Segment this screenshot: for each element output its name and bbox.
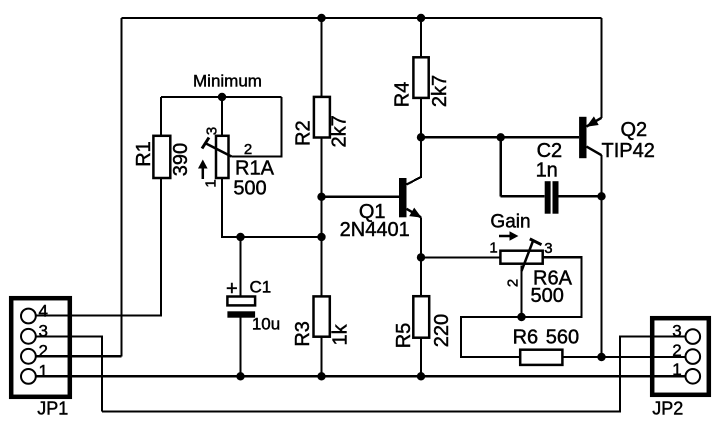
node R6A wiper / loop bottom (517, 313, 525, 321)
svg-text:2k7: 2k7 (429, 75, 451, 107)
svg-text:3: 3 (204, 127, 221, 135)
pin circle JP1-3 (21, 329, 36, 344)
resistor R6 (513, 327, 579, 365)
svg-text:2: 2 (38, 342, 47, 361)
potentiometer R6A wiper diagonal (522, 241, 534, 271)
node R6 right / Q2 collector / JP2 pin2 (597, 353, 605, 361)
resistor R5 body (413, 296, 429, 338)
svg-text:2N4401: 2N4401 (340, 219, 410, 241)
wire minimum loop top (161, 96, 282, 98)
connector JP2 (652, 318, 709, 418)
capacitor C2 (536, 140, 563, 214)
connector JP1 (11, 298, 70, 418)
svg-text:JP2: JP2 (652, 399, 683, 419)
svg-text:1: 1 (489, 240, 497, 257)
arrow head (510, 231, 519, 241)
resistor R2 (293, 97, 351, 148)
svg-text:R1A: R1A (235, 158, 275, 180)
svg-text:500: 500 (233, 178, 266, 200)
wire Q2 emitter top lead (600, 18, 602, 118)
resistor R1 (133, 136, 192, 178)
node R4 bottom / Q2 base (417, 133, 425, 141)
pin circle JP1-1 (21, 369, 36, 384)
potentiometer R1A wiper T-bar (202, 138, 209, 149)
wire Q1 collector lead (407, 137, 422, 184)
pin circle JP2-2 (686, 349, 701, 364)
wire bottom long run to JP2 pin3 (102, 337, 686, 412)
wire Q2 collector lead down (600, 155, 602, 357)
node C2 branch / Q2 base wire (497, 133, 505, 141)
wire ground rail JP1 pin1 to JP2 pin1 (36, 375, 686, 377)
wire C1 top lead (239, 237, 241, 297)
wire R6A pin3 loop to R6 left lead (461, 257, 582, 357)
wire R4 top lead (420, 18, 422, 57)
R1A adjustment direction arrow (198, 160, 208, 180)
potentiometer R6A (489, 239, 572, 307)
transistor Q1 emitter diagonal (407, 209, 422, 218)
node R3 bottom / ground rail (317, 372, 325, 380)
svg-text:R1: R1 (133, 141, 155, 167)
wire R4 bottom lead (420, 98, 422, 137)
transistor Q2 collector diagonal (587, 147, 602, 156)
wire R1 top lead (160, 97, 162, 136)
node top rail / R2 branch (317, 14, 325, 22)
wire R6 right lead to JP2 pin2 (562, 356, 685, 358)
transistor Q2 base bar (579, 117, 586, 158)
node R5 bottom / ground rail (417, 372, 425, 380)
wire Q1 emitter row to R6A pin1 (421, 256, 500, 258)
potentiometer R1A (202, 127, 275, 200)
capacitor C1 negative plate (227, 311, 255, 317)
potentiometer R6A wiper T-bar (530, 239, 542, 245)
resistor R5 (393, 296, 453, 348)
transistor Q1 (340, 178, 422, 241)
Gain adjustment direction arrow (499, 231, 518, 241)
wire R1 bottom lead to JP1 pin4 (36, 178, 161, 316)
capacitor C1 (226, 278, 280, 334)
arrow head (198, 160, 208, 169)
svg-text:R3: R3 (292, 321, 314, 347)
resistor R2 body (314, 97, 330, 138)
node R1A terminal 1 wire / R2R3 line (317, 233, 325, 241)
wire left vertical from top rail to JP1 pin2 row (120, 18, 122, 356)
wire R5 bottom lead (420, 338, 422, 377)
svg-text:10u: 10u (252, 315, 280, 334)
resistor R6 body (520, 350, 562, 365)
wire Q1 emitter down to R5 top (420, 217, 422, 296)
resistor R4 body (413, 57, 428, 98)
connector JP1 box (11, 298, 70, 397)
pin circle JP2-3 (686, 329, 701, 344)
resistor R3 (292, 296, 352, 346)
resistor R4 (392, 57, 452, 107)
node top rail / R4 branch (417, 14, 425, 22)
svg-text:4: 4 (38, 302, 47, 321)
wire JP1 pin2 lead (36, 355, 122, 357)
pin circle JP2-1 (686, 369, 701, 384)
resistor R1 body (153, 136, 170, 178)
wire Q2 base (421, 136, 579, 138)
node minimum loop / R1A terminal 3 (218, 93, 226, 101)
svg-text:2: 2 (244, 141, 252, 158)
arrow stem (202, 166, 205, 179)
potentiometer R1A body (216, 136, 229, 178)
svg-text:560: 560 (546, 327, 579, 349)
wire top supply rail (122, 17, 602, 19)
node C2 right / Q2 collector (597, 192, 605, 200)
wire R3 bottom lead (320, 337, 322, 377)
pin circle JP1-4 (21, 309, 36, 324)
svg-text:220: 220 (431, 314, 453, 347)
capacitor C1 positive plate (227, 297, 255, 306)
svg-text:R4: R4 (392, 82, 414, 108)
wire minimum loop right side to R1A wiper (232, 97, 282, 157)
transistor Q2 emitter arrow (586, 116, 598, 126)
svg-text:1n: 1n (536, 160, 558, 182)
node Q1 emitter / R6A pin1 row (417, 253, 425, 261)
transistor Q1 base bar (399, 178, 407, 217)
resistor R3 body (314, 296, 330, 336)
svg-text:Q2: Q2 (620, 119, 647, 141)
svg-text:JP1: JP1 (37, 399, 68, 419)
wire C2 branch vertical (500, 137, 502, 196)
svg-text:500: 500 (531, 285, 564, 307)
svg-text:390: 390 (170, 143, 192, 176)
svg-text:3: 3 (38, 322, 47, 341)
capacitor C2 left plate (545, 181, 551, 214)
wire C1 bottom lead (239, 318, 241, 377)
pin circle JP1-2 (21, 349, 36, 364)
node C1 top / R1A terminal 1 wire (236, 233, 244, 241)
wire C2 right lead (559, 195, 602, 197)
svg-text:C1: C1 (250, 278, 272, 297)
wire C2 left lead (501, 195, 545, 197)
transistor Q1 emitter arrow (409, 208, 421, 218)
svg-text:Gain: Gain (490, 212, 530, 233)
wire R2 top lead (320, 18, 322, 97)
svg-text:R6: R6 (513, 327, 539, 349)
wire R2 bottom to R3 top (320, 138, 322, 297)
svg-text:2: 2 (505, 279, 522, 287)
svg-text:1: 1 (38, 362, 47, 381)
wire R6A wiper terminal 2 lead (520, 266, 522, 318)
wire JP1 pin3 lead down to bottom wire (36, 336, 102, 411)
svg-text:+: + (226, 278, 238, 300)
svg-text:R2: R2 (293, 120, 315, 146)
wire Q1 base (322, 196, 400, 198)
svg-text:3: 3 (544, 240, 552, 257)
transistor Q2 emitter diagonal (587, 118, 602, 127)
svg-text:1k: 1k (330, 323, 352, 345)
svg-text:Minimum: Minimum (193, 72, 262, 91)
svg-text:3: 3 (672, 322, 681, 341)
capacitor C2 right plate (553, 181, 559, 214)
svg-text:2k7: 2k7 (329, 115, 351, 147)
transistor Q2 (579, 116, 655, 162)
svg-text:1: 1 (672, 360, 681, 379)
node Q1 base / R2 bottom (317, 193, 325, 201)
node C1 bottom / ground rail (236, 372, 244, 380)
svg-text:R5: R5 (393, 323, 415, 349)
wire R1A terminal3 lead (221, 97, 223, 136)
svg-text:1: 1 (203, 179, 220, 187)
svg-text:TIP42: TIP42 (602, 140, 655, 162)
wire R1A terminal1 lead to R2R3 line (222, 178, 322, 237)
potentiometer R6A body (500, 251, 542, 264)
connector JP2 box (652, 318, 709, 395)
arrow stem (499, 235, 511, 238)
svg-text:2: 2 (672, 341, 681, 360)
potentiometer R1A wiper diagonal (205, 143, 232, 157)
